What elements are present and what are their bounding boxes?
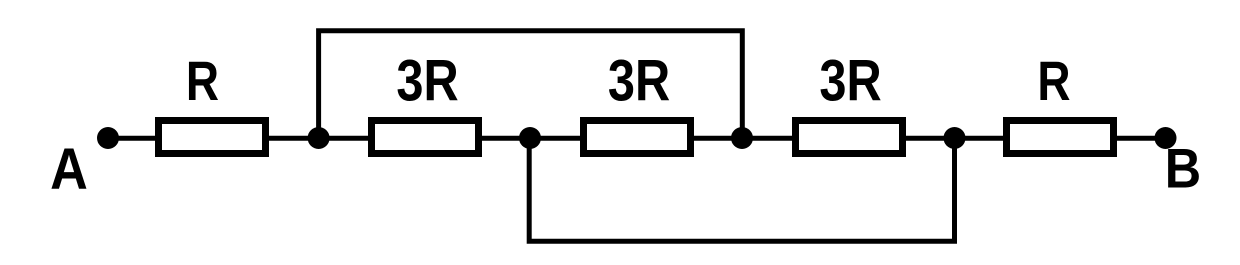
svg-text:R: R bbox=[1037, 50, 1070, 112]
svg-text:R: R bbox=[186, 50, 219, 112]
svg-text:3R: 3R bbox=[608, 50, 670, 114]
svg-text:A: A bbox=[50, 136, 88, 201]
svg-text:3R: 3R bbox=[819, 50, 881, 114]
svg-text:B: B bbox=[1165, 138, 1201, 200]
svg-text:3R: 3R bbox=[396, 50, 458, 114]
